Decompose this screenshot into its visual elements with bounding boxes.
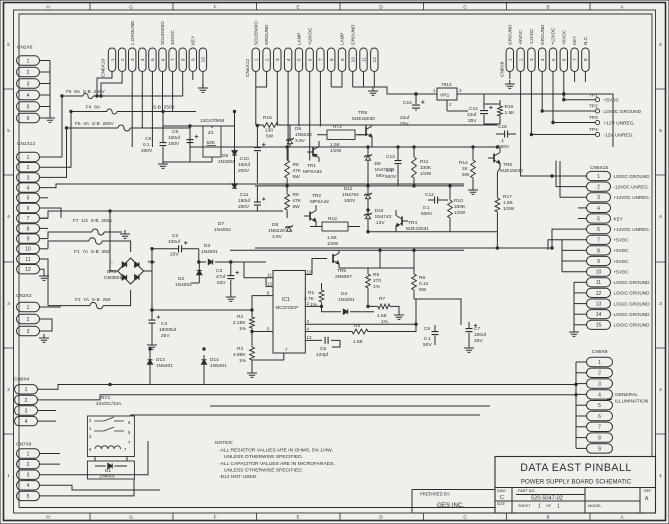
svg-text:3: 3 (275, 58, 280, 61)
svg-text:4: 4 (25, 419, 28, 425)
svg-text:5W: 5W (419, 287, 427, 293)
svg-text:2.15K: 2.15K (233, 320, 246, 326)
svg-text:D4: D4 (341, 291, 347, 297)
svg-text:GROUND: GROUND (350, 24, 355, 45)
svg-text:TR5: TR5 (337, 268, 346, 274)
svg-text:+12V UNREG.: +12V UNREG. (604, 120, 635, 126)
wire 250 rail (230, 249, 464, 251)
svg-text:4: 4 (27, 483, 30, 489)
wire F7 net (48, 232, 122, 239)
wire 246 rail (255, 247, 552, 249)
prepared by cell (412, 490, 495, 514)
svg-text:7: 7 (170, 58, 175, 61)
CN4X12 pin lead wires (256, 72, 374, 161)
svg-text:6: 6 (7, 42, 10, 47)
svg-text:MPSA42: MPSA42 (310, 199, 329, 205)
wire R13 leads (310, 226, 360, 228)
svg-text:VR1: VR1 (440, 93, 450, 99)
svg-text:E: E (296, 515, 299, 520)
svg-text:3: 3 (659, 301, 662, 306)
test point TP3 (552, 115, 635, 126)
resistor R11 (412, 155, 417, 180)
svg-text:CN9X4: CN9X4 (14, 377, 30, 383)
svg-text:5: 5 (27, 494, 30, 500)
svg-text:7: 7 (318, 58, 323, 61)
svg-text:1.8K: 1.8K (353, 339, 364, 345)
title block (495, 457, 656, 514)
svg-text:D6: D6 (295, 126, 301, 132)
svg-text:1: 1 (557, 504, 560, 510)
diode D1 1N4001 module (87, 461, 134, 479)
svg-text:4: 4 (27, 186, 30, 192)
svg-text:1/2W: 1/2W (420, 171, 432, 177)
fuse F5 (118, 125, 130, 131)
svg-text:F1 7A S-B 250: F1 7A S-B 250 (74, 249, 110, 255)
svg-text:3: 3 (27, 473, 30, 479)
svg-text:S-B 250V: S-B 250V (153, 105, 176, 111)
zener D9 1N4760B (365, 156, 370, 160)
svg-text:L.GROUND: L.GROUND (130, 20, 135, 45)
connector CN8X9 (587, 349, 613, 453)
svg-text:R5: R5 (373, 272, 379, 278)
svg-text:TR1: TR1 (307, 163, 316, 169)
svg-text:1/2W: 1/2W (454, 210, 466, 216)
CN6X10 pin lead wires (97, 72, 203, 148)
svg-text:C14: C14 (469, 106, 478, 112)
svg-text:-12VDC: -12VDC (529, 28, 534, 45)
svg-text:2: 2 (518, 58, 523, 61)
svg-text:270: 270 (373, 278, 381, 284)
svg-text:500V: 500V (421, 211, 433, 217)
svg-text:1: 1 (110, 58, 115, 61)
resistor RT2 box (327, 130, 355, 140)
svg-text:9: 9 (191, 58, 196, 61)
diode D3 1N4001 (208, 259, 212, 264)
wire F6 net (62, 95, 183, 97)
svg-text:LAMP: LAMP (340, 32, 345, 45)
svg-text:3: 3 (597, 195, 600, 201)
svg-text:14: 14 (596, 312, 602, 318)
svg-text:LOGIC GROUND: LOGIC GROUND (614, 301, 651, 306)
svg-text:UNLESS OTHERWISE SPECIFIED.: UNLESS OTHERWISE SPECIFIED. (224, 468, 303, 474)
svg-text:1N4004: 1N4004 (218, 159, 235, 165)
svg-text:1N5228: 1N5228 (268, 228, 285, 234)
resistor R13 box (322, 222, 348, 231)
svg-text:DATA EAST PINBALL: DATA EAST PINBALL (520, 462, 632, 474)
svg-text:500V: 500V (385, 174, 397, 180)
svg-text:2.7K: 2.7K (304, 296, 315, 302)
wire bus 406 (210, 405, 490, 407)
wire 231 rail (368, 231, 497, 233)
svg-text:520-5047-02: 520-5047-02 (531, 496, 563, 502)
svg-text:500V: 500V (498, 144, 510, 150)
svg-text:5: 5 (7, 128, 10, 133)
diode D2 1N4001 (197, 270, 202, 274)
svg-text:KEY: KEY (190, 36, 195, 45)
capacitor C16 (505, 131, 508, 138)
svg-text:LOGIC GROUND: LOGIC GROUND (614, 323, 651, 328)
svg-text:-: - (111, 260, 113, 266)
svg-text:+5VDC: +5VDC (614, 238, 630, 243)
svg-text:MC3723CP: MC3723CP (276, 305, 299, 310)
svg-text:UNLESS OTHERWISE SPECIFIED.: UNLESS OTHERWISE SPECIFIED. (224, 454, 303, 460)
svg-text:+12VDC UNREG.: +12VDC UNREG. (614, 227, 651, 232)
svg-text:6: 6 (27, 206, 30, 212)
svg-text:CN5X15: CN5X15 (590, 165, 608, 171)
svg-text:1: 1 (25, 387, 28, 393)
svg-text:6: 6 (160, 58, 165, 61)
svg-text:4: 4 (598, 392, 601, 398)
svg-text:1%: 1% (239, 358, 247, 364)
svg-text:200V: 200V (141, 148, 153, 154)
svg-text:1.5K: 1.5K (503, 200, 514, 206)
svg-text:MJE15030: MJE15030 (500, 168, 523, 174)
svg-text:.1: .1 (500, 138, 504, 144)
capacitor C11 (254, 202, 261, 205)
svg-text:2: 2 (120, 58, 125, 61)
capacitor C7 (466, 329, 473, 332)
resistor R15 (261, 123, 280, 128)
svg-text:9: 9 (340, 58, 345, 61)
svg-text:POWER SUPPLY BOARD SCHEMATIC: POWER SUPPLY BOARD SCHEMATIC (521, 479, 632, 486)
svg-text:1: 1 (508, 58, 513, 61)
resistor R5 (366, 272, 371, 290)
ground below C4 (147, 341, 157, 349)
wire 262 node (199, 249, 266, 271)
svg-text:22uf: 22uf (400, 115, 410, 121)
connector CN9X4 (14, 377, 38, 426)
svg-text:8: 8 (181, 58, 186, 61)
resistor R6 (412, 272, 417, 292)
svg-text:MJE15030: MJE15030 (352, 116, 375, 122)
svg-text:420pf: 420pf (316, 352, 329, 358)
svg-text:H: H (46, 515, 49, 520)
CN8X8 pin lead wires (510, 72, 586, 177)
diode D5 1N4004 (232, 151, 237, 155)
fuse F6 (83, 94, 93, 99)
ground below R14 (468, 186, 478, 194)
svg-text:12: 12 (267, 281, 272, 286)
svg-text:12: 12 (25, 267, 31, 273)
svg-text:3: 3 (529, 58, 534, 61)
wire bus 384 (110, 384, 560, 386)
wire 184 bus (62, 183, 464, 185)
ground below R3 (247, 369, 257, 377)
svg-text:-12V UNREG.: -12V UNREG. (604, 132, 634, 138)
svg-text:330K: 330K (420, 165, 432, 171)
wire F4 net (71, 111, 196, 113)
svg-text:1N4004: 1N4004 (214, 227, 231, 233)
wire VR1 ground pin (446, 100, 448, 111)
svg-text:2: 2 (27, 317, 30, 323)
svg-text:8: 8 (583, 58, 588, 61)
svg-text:R2: R2 (237, 314, 243, 320)
svg-text:D3: D3 (204, 243, 210, 249)
svg-text:1: 1 (27, 451, 30, 457)
transistor TR5 2N6057 (332, 254, 334, 263)
svg-text:KEY: KEY (614, 216, 623, 221)
wire F2 net (48, 290, 131, 306)
capacitor C3 (227, 276, 234, 279)
svg-text:+5VDC: +5VDC (614, 269, 630, 274)
svg-text:3: 3 (27, 81, 30, 87)
svg-text:12: 12 (372, 57, 377, 63)
svg-text:5: 5 (551, 58, 556, 61)
svg-text:130: 130 (265, 128, 273, 134)
svg-text:C10: C10 (240, 156, 249, 162)
svg-text:GENERAL: GENERAL (615, 392, 638, 398)
wire bridge plus to main positive node (144, 270, 152, 272)
svg-text:330K: 330K (454, 204, 466, 210)
svg-text:CN8X8: CN8X8 (500, 61, 506, 77)
svg-text:8: 8 (27, 226, 30, 232)
svg-text:18000uf: 18000uf (159, 327, 177, 333)
capacitor C6 (432, 332, 439, 335)
svg-text:D10: D10 (375, 208, 384, 214)
wire pin3 net (312, 299, 416, 324)
wire junction dots (61, 93, 565, 386)
svg-text:PREPARED BY:: PREPARED BY: (420, 492, 450, 497)
transistor TR4 MJE15031 (401, 217, 403, 226)
svg-text:R6: R6 (419, 275, 425, 281)
resistor R7 (376, 304, 392, 309)
svg-text:R3: R3 (237, 346, 243, 352)
svg-text:150uf: 150uf (238, 162, 251, 168)
svg-text:2: 2 (7, 387, 10, 392)
svg-text:5: 5 (27, 196, 30, 202)
svg-text:B: B (546, 4, 549, 9)
svg-text:2K: 2K (462, 166, 469, 172)
svg-text:4: 4 (286, 58, 291, 61)
wire IC1 pin11 pin12 (244, 271, 266, 287)
transistor TR8 MJE15030 (365, 127, 367, 136)
zener D11 1N4764 (365, 194, 370, 198)
svg-text:6: 6 (307, 58, 312, 61)
svg-text:2: 2 (27, 462, 30, 468)
wire IC1 pin6 (252, 296, 266, 310)
svg-text:F7 1/2 S-B 250V: F7 1/2 S-B 250V (73, 218, 113, 224)
svg-text:25V: 25V (161, 333, 170, 339)
svg-text:8: 8 (598, 436, 601, 442)
svg-text:F5 4A S-B 250V: F5 4A S-B 250V (75, 121, 114, 127)
svg-text:4.99K: 4.99K (233, 352, 246, 358)
svg-text:5: 5 (597, 216, 600, 222)
wire bridge minus to 211 bus (110, 211, 118, 271)
svg-text:C16: C16 (498, 124, 507, 130)
svg-text:2: 2 (27, 165, 30, 171)
CN1X12 pin lead wires (40, 96, 72, 306)
svg-text:5: 5 (297, 58, 302, 61)
svg-text:+18VDC: +18VDC (307, 27, 312, 45)
svg-text:63V: 63V (217, 280, 226, 286)
svg-text:100V: 100V (168, 141, 180, 147)
svg-text:1: 1 (27, 155, 30, 161)
svg-text:TR6: TR6 (503, 162, 512, 168)
svg-text:6: 6 (597, 227, 600, 233)
svg-text:25V: 25V (400, 121, 409, 127)
svg-text:C12: C12 (425, 192, 434, 198)
svg-text:8: 8 (597, 248, 600, 254)
svg-text:-ALL RESISTOR VALUES ARE IN OH: -ALL RESISTOR VALUES ARE IN OHMS, 5% 1/4… (219, 448, 333, 454)
svg-text:2: 2 (597, 185, 600, 191)
svg-text:MPSA92: MPSA92 (303, 169, 322, 175)
svg-text:RT2: RT2 (333, 124, 342, 130)
svg-text:LOGIC GROUND: LOGIC GROUND (614, 280, 651, 285)
CN2X6 ground bus wires (40, 61, 51, 119)
capacitor C5 (325, 337, 328, 344)
svg-text:R14: R14 (459, 160, 468, 166)
wire 12V regulator input (373, 87, 437, 94)
wire pin13 net (312, 340, 340, 347)
fuse F7 (92, 229, 104, 235)
svg-text:N.C.: N.C. (583, 36, 588, 45)
svg-text:330uf: 330uf (474, 332, 487, 338)
connector CN5X15 (587, 165, 651, 329)
notes text block (215, 440, 335, 480)
ground below CN2X6 (45, 114, 55, 122)
svg-text:0.1: 0.1 (424, 336, 431, 342)
connector CN1X12 (17, 141, 40, 274)
test point TP4 (530, 127, 633, 138)
svg-text:11: 11 (25, 257, 30, 263)
svg-text:5W: 5W (462, 172, 470, 178)
svg-text:RY1: RY1 (101, 395, 111, 401)
svg-text:11: 11 (596, 280, 601, 286)
svg-text:TR2: TR2 (312, 193, 321, 199)
CN8X8 pin signal labels (507, 24, 588, 45)
ground below C9 (158, 160, 168, 168)
diode D14 1N5401 (201, 360, 206, 364)
wire pin4 net (312, 331, 350, 333)
svg-text:1N5401: 1N5401 (156, 363, 173, 369)
svg-text:47K: 47K (293, 198, 302, 204)
ground at CN5X15 (569, 328, 579, 336)
svg-text:C9: C9 (145, 136, 151, 142)
svg-text:1: 1 (597, 174, 600, 180)
svg-text:D11: D11 (344, 186, 353, 192)
wire F1 net (48, 241, 131, 252)
svg-text:D13: D13 (156, 357, 165, 363)
svg-text:24VDC/10A: 24VDC/10A (96, 401, 122, 407)
svg-text:1N5228: 1N5228 (295, 132, 312, 138)
svg-text:SOLENOID: SOLENOID (253, 21, 258, 45)
svg-text:6: 6 (598, 414, 601, 420)
svg-text:R10: R10 (454, 198, 463, 204)
svg-text:1%: 1% (373, 284, 381, 290)
svg-text:4: 4 (140, 58, 145, 61)
svg-text:SIZE: SIZE (497, 502, 506, 506)
svg-text:1N4001: 1N4001 (175, 282, 192, 288)
svg-text:IC1: IC1 (282, 297, 290, 303)
capacitor C10 (254, 148, 261, 151)
wire bus 415 (130, 414, 480, 416)
svg-text:1/2W: 1/2W (330, 148, 342, 154)
svg-text:2N6057: 2N6057 (335, 274, 352, 280)
svg-text:LOGIC GROUND: LOGIC GROUND (604, 109, 642, 115)
svg-text:25V: 25V (170, 252, 179, 258)
svg-text:150uf: 150uf (168, 135, 181, 141)
svg-text:1: 1 (538, 504, 541, 510)
svg-text:13V: 13V (376, 220, 385, 226)
capacitor C13 (395, 161, 402, 164)
svg-text:LOGIC GROUND: LOGIC GROUND (614, 291, 651, 296)
svg-text:C6: C6 (424, 326, 430, 332)
ground above D13 (149, 348, 151, 350)
svg-text:R9: R9 (293, 192, 299, 198)
svg-text:F: F (214, 4, 217, 9)
svg-text:R13: R13 (328, 216, 337, 222)
svg-text:2: 2 (25, 398, 28, 404)
wire pin2 net (312, 306, 341, 311)
resistor R1 (319, 288, 324, 304)
wire bus 395 (100, 394, 570, 396)
CN5X15 lead wires (548, 161, 587, 330)
svg-text:1: 1 (27, 305, 30, 311)
svg-text:C2: C2 (172, 233, 178, 239)
wire relay to D1 (95, 457, 127, 462)
svg-text:10: 10 (25, 247, 31, 253)
svg-text:3: 3 (25, 408, 28, 414)
svg-text:0.1: 0.1 (143, 142, 150, 148)
svg-text:-12VDC UNREG.: -12VDC UNREG. (614, 184, 649, 189)
svg-text:C: C (500, 495, 504, 501)
wire 147 rail (190, 146, 497, 148)
svg-text:GROUND: GROUND (540, 24, 545, 45)
svg-text:3.9V: 3.9V (295, 138, 306, 144)
wire IC1 pin7 ground bus (252, 360, 284, 373)
zener D10 1N4743 (365, 214, 370, 218)
svg-text:7: 7 (598, 425, 601, 431)
ground below CN1X12 pin 12 (39, 272, 49, 280)
svg-text:F4 8A: F4 8A (86, 105, 101, 111)
ground below C3 (226, 293, 236, 301)
CN8X9 lead wires (560, 362, 587, 448)
svg-text:D14: D14 (210, 357, 219, 363)
svg-text:9: 9 (597, 259, 600, 265)
svg-text:10: 10 (201, 57, 206, 63)
svg-text:2: 2 (598, 371, 601, 377)
svg-text:13: 13 (596, 301, 602, 307)
capacitor C8 (187, 140, 194, 143)
svg-text:+12VDC: +12VDC (551, 27, 556, 45)
svg-text:0.1: 0.1 (423, 205, 430, 211)
IC1 pin stubs (266, 269, 312, 360)
svg-text:0.1: 0.1 (386, 168, 393, 174)
resistor R2 (250, 315, 255, 330)
capacitor C2 (179, 245, 182, 252)
bridge rectifier BR1 CM3501 (104, 258, 151, 284)
svg-text:8: 8 (329, 58, 334, 61)
resistor R16 (498, 104, 503, 118)
svg-text:1.5K: 1.5K (377, 313, 388, 319)
svg-text:10: 10 (596, 270, 602, 276)
svg-text:C4: C4 (161, 321, 167, 327)
svg-text:TR4: TR4 (408, 220, 417, 226)
svg-text:3: 3 (598, 382, 601, 388)
svg-text:R4: R4 (354, 323, 360, 329)
svg-text:1.5K: 1.5K (505, 110, 516, 116)
svg-text:CN2X6: CN2X6 (17, 45, 33, 51)
fuse F4 (107, 109, 117, 114)
svg-text:CN1X12: CN1X12 (17, 141, 35, 147)
test point TP2 (541, 104, 642, 115)
ground at R7 (394, 311, 404, 319)
svg-text:R17: R17 (503, 194, 512, 200)
svg-text:4: 4 (540, 58, 545, 61)
resistor R17 (495, 196, 500, 214)
svg-text:11: 11 (361, 57, 366, 62)
svg-text:1: 1 (7, 473, 10, 478)
